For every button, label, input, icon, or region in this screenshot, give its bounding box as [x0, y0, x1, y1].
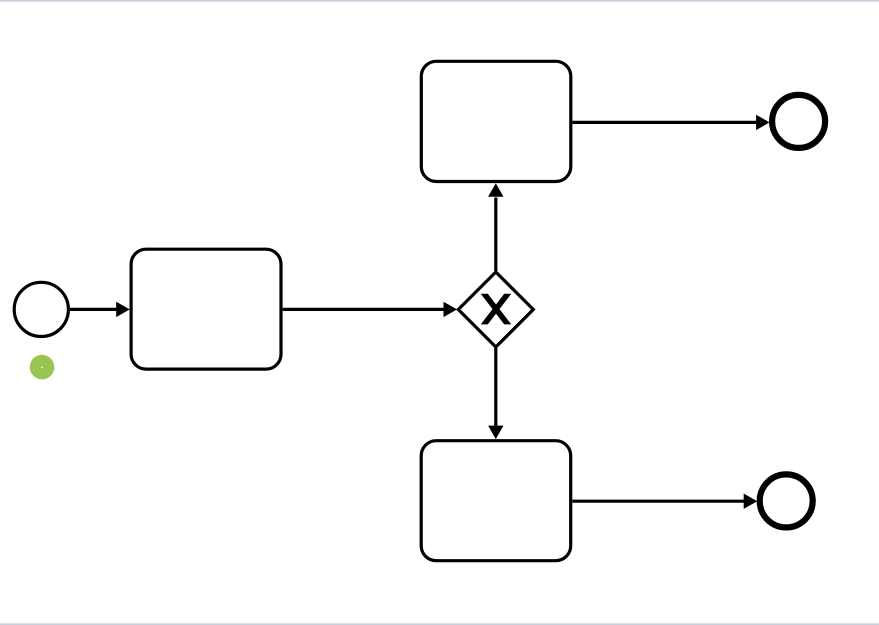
start event (circle) [14, 282, 68, 336]
end event 1 (thick circle, top right) [772, 95, 825, 148]
sequence flow: task B to end event 1 [572, 115, 769, 130]
sequence flow: start event to task A [70, 302, 130, 317]
task C (bottom rounded rectangle) [421, 441, 571, 561]
bottom window edge highlight [0, 622, 879, 625]
top window edge highlight [0, 0, 879, 3]
task B (top rounded rectangle) [421, 61, 571, 181]
sequence flow: task C to end event 2 [572, 494, 757, 509]
sequence flow: task A to gateway [283, 302, 457, 317]
task A (left rounded rectangle) [131, 249, 281, 369]
gateway X marker [482, 295, 509, 324]
sequence flow: gateway down to task C [488, 348, 503, 439]
end event 2 (thick circle, bottom right) [760, 474, 813, 527]
token highlight speck [41, 367, 43, 369]
token (green dot) [30, 355, 55, 380]
sequence flow: gateway up to task B [488, 183, 503, 271]
exclusive gateway (diamond) [458, 272, 533, 347]
